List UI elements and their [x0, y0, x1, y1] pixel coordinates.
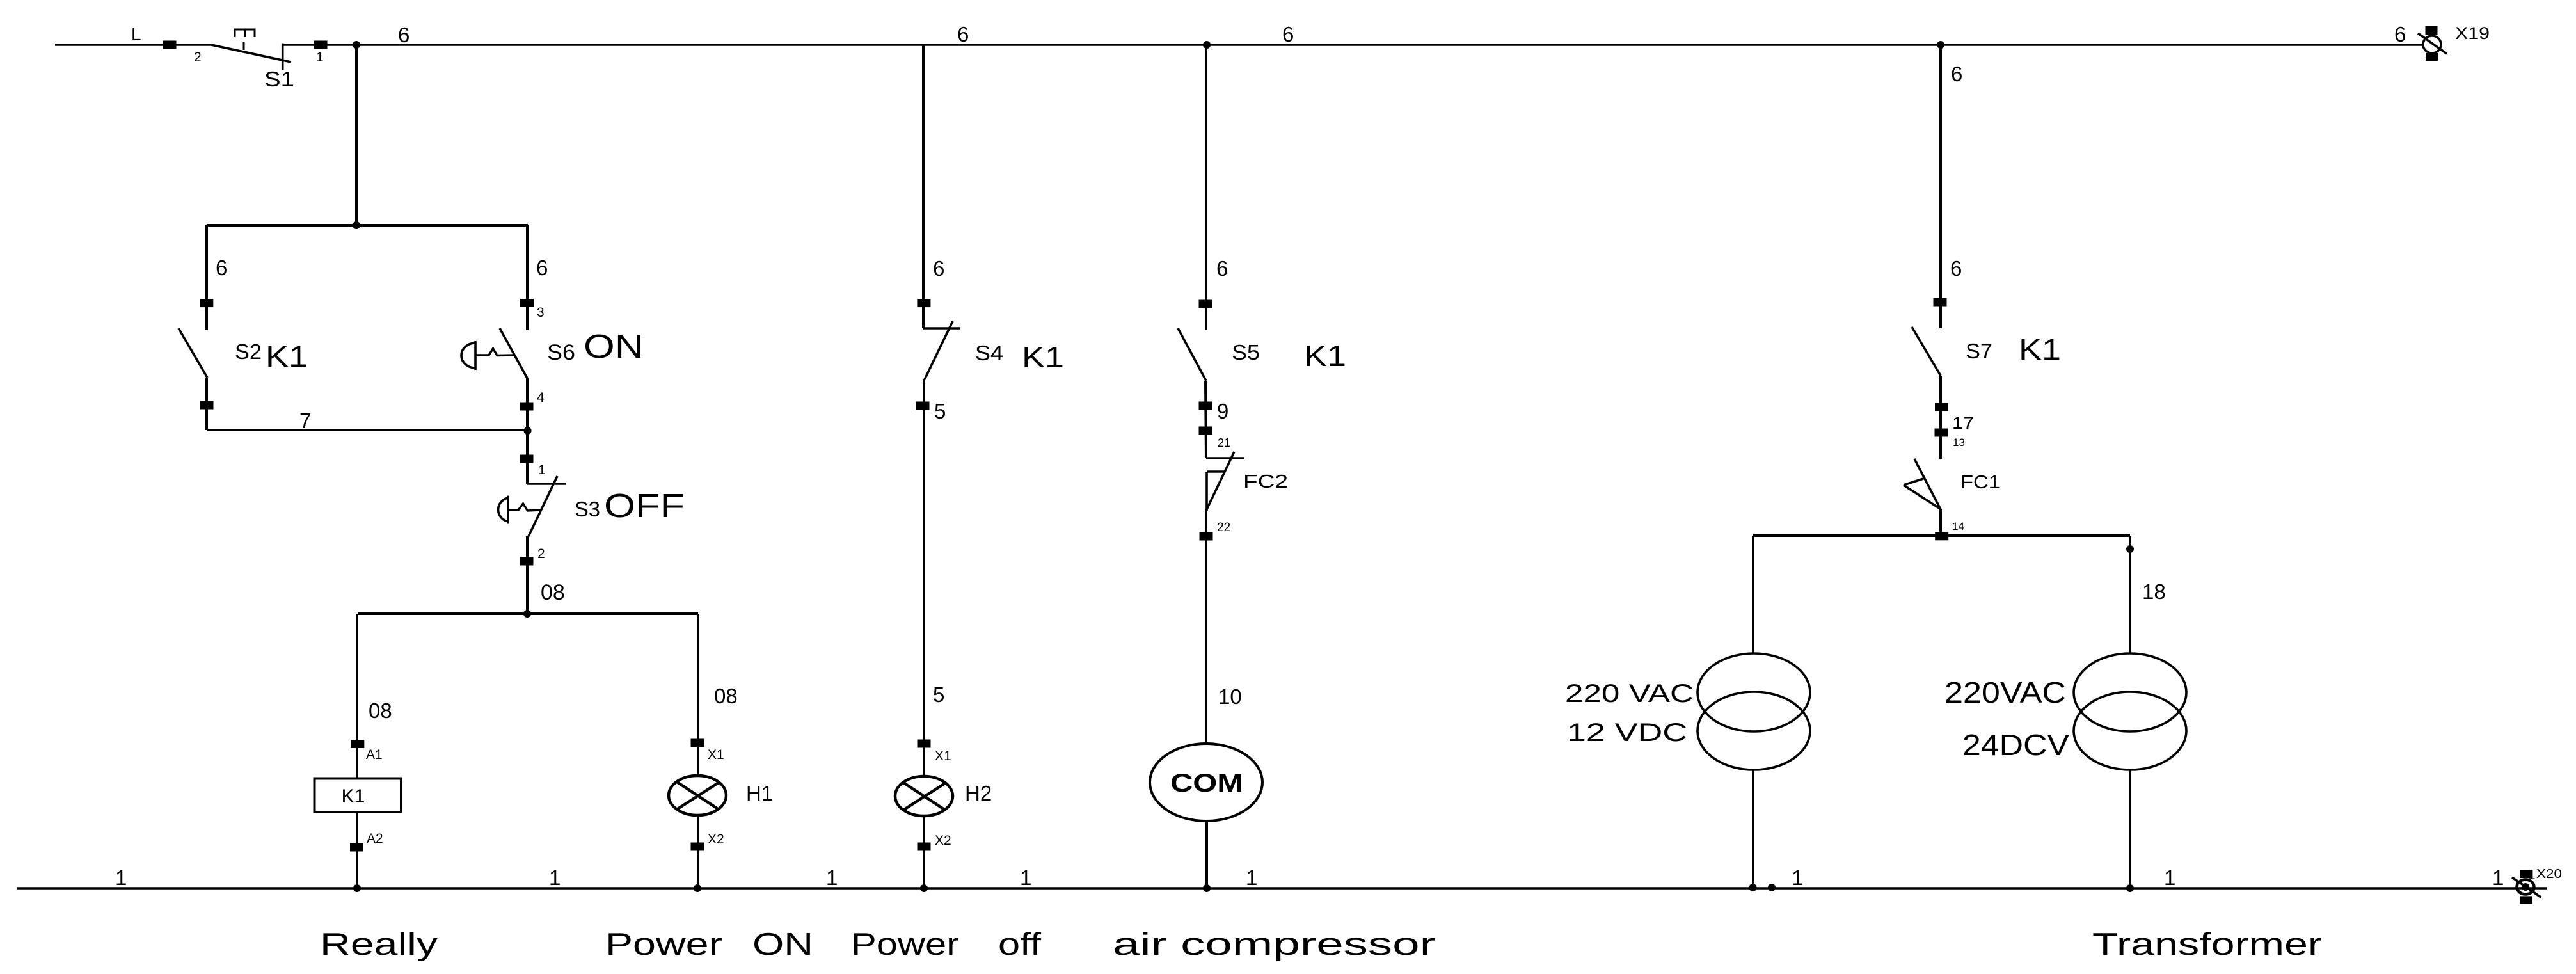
svg-text:S1: S1	[264, 67, 294, 91]
contact S5 blade (NO contact K1)	[1178, 328, 1206, 381]
wire rung node 08	[358, 612, 698, 615]
pin A1 label	[366, 747, 383, 762]
svg-text:K1: K1	[266, 340, 308, 373]
relay coil K1 label	[342, 786, 365, 807]
node 6 label S7 column top	[1951, 62, 1962, 86]
wire T1 secondary	[1752, 770, 1754, 888]
svg-text:22: 22	[1217, 521, 1230, 534]
terminal 14 of FC1	[1935, 532, 1948, 540]
wire S5 column upper	[1205, 45, 1207, 330]
wire COM lower	[1205, 821, 1208, 888]
junction H1 column with bottom rail	[694, 884, 701, 892]
svg-text:S4: S4	[975, 341, 1003, 365]
relay contact K1 label at S5	[1304, 339, 1346, 372]
caption Transformer	[2092, 927, 2322, 962]
connector X19 slash	[2418, 33, 2447, 54]
wire K1 coil upper	[356, 614, 358, 778]
relay contact K1 label at S7	[2019, 333, 2061, 366]
connector X19 label	[2455, 24, 2490, 43]
svg-text:6: 6	[216, 256, 227, 280]
wire S6 upper	[526, 225, 529, 330]
wire T2 secondary	[2129, 770, 2131, 888]
lamp H1 label	[746, 781, 773, 805]
terminal 2 of S1	[163, 41, 177, 49]
transformer T1 secondary winding	[1697, 692, 1810, 770]
svg-text:5: 5	[934, 399, 946, 423]
svg-text:7: 7	[299, 409, 311, 433]
contact S3 blade (NC pushbutton)	[529, 476, 557, 536]
svg-text:18: 18	[2142, 580, 2166, 603]
connector X20 circle	[2517, 880, 2534, 895]
transformer T2 24DCV label	[1962, 728, 2069, 762]
contact S6 blade (NO pushbutton)	[500, 328, 527, 378]
pin X2 label of H1	[708, 832, 724, 847]
pin 2 label of S1	[194, 50, 202, 65]
terminal S7 upper	[1934, 298, 1947, 307]
svg-text:A1: A1	[366, 747, 383, 762]
svg-text:1: 1	[115, 866, 127, 890]
wire rung upper	[207, 224, 528, 227]
transformer T1 12 VDC label	[1567, 719, 1687, 747]
wire top rail L segment	[55, 44, 211, 46]
svg-text:08: 08	[369, 699, 392, 723]
svg-text:off: off	[998, 927, 1041, 962]
lamp H2	[895, 776, 953, 816]
svg-text:6: 6	[933, 257, 944, 280]
connector X20 lower terminal	[2520, 896, 2532, 904]
junction rung 7 with S6 column	[524, 427, 532, 435]
svg-text:X19: X19	[2455, 24, 2490, 43]
connector X20 upper terminal	[2520, 870, 2533, 878]
node 10 label	[1218, 685, 1242, 708]
terminal 9 of S5	[1199, 402, 1212, 410]
transformer T2 220VAC label	[1944, 676, 2066, 709]
junction T1 with bottom rail	[1749, 884, 1757, 891]
junction top rail with S7 column	[1937, 41, 1944, 49]
node L label	[131, 24, 141, 44]
junction feeder with T2 column	[2126, 545, 2134, 553]
svg-text:ON: ON	[752, 927, 813, 962]
node 5 label above X1 of H2	[933, 683, 944, 707]
svg-text:X1: X1	[935, 749, 951, 763]
terminal S5 upper	[1199, 300, 1212, 308]
transformer T2 secondary winding	[2074, 692, 2186, 770]
pin 1 label of S1	[316, 50, 324, 65]
connector X20 pin 1 label	[2528, 868, 2536, 882]
pin X2 label of H2	[935, 833, 951, 848]
svg-text:X2: X2	[708, 832, 724, 847]
lamp H2 label	[965, 781, 992, 805]
connector X20 label	[2536, 867, 2562, 881]
contact S4 seat	[923, 327, 960, 330]
wire T1 primary	[1752, 536, 1754, 654]
node 6 label at X19	[2394, 22, 2406, 46]
wire S4 lower to lamp H2	[923, 379, 925, 777]
switch S6 reference label	[547, 340, 575, 365]
terminal A2 of K1	[350, 843, 363, 852]
relay contact K1 label at S2	[266, 340, 308, 373]
relay contact K1 label at S4	[1022, 340, 1064, 374]
lamp H1	[669, 776, 726, 815]
motor COM (air compressor)	[1150, 744, 1262, 821]
junction rung 08 with S3	[523, 610, 531, 618]
wire S6 lower	[526, 378, 529, 484]
terminal 22 of FC2	[1200, 532, 1213, 541]
svg-text:S5: S5	[1232, 340, 1260, 364]
svg-text:6: 6	[536, 256, 548, 280]
contact FC1 blade (NO limit switch)	[1914, 459, 1941, 509]
motor COM label	[1170, 769, 1243, 797]
svg-text:220 VAC: 220 VAC	[1565, 680, 1694, 708]
svg-text:1: 1	[826, 866, 838, 890]
wire rung node 7	[207, 429, 528, 431]
terminal X1 of H1	[691, 739, 704, 747]
pin 22 label	[1217, 521, 1230, 534]
transformer T2 primary winding	[2074, 653, 2186, 731]
node 08 label above A1	[369, 699, 392, 723]
junction K1 column with bottom rail	[353, 884, 361, 892]
svg-text:6: 6	[957, 22, 969, 46]
limit switch FC2 label	[1243, 472, 1288, 492]
contact S4 blade (NC contact K1)	[925, 321, 953, 379]
switch S1 maintained actuator	[235, 29, 255, 50]
svg-text:A2: A2	[367, 831, 383, 846]
node 6 label S5 column	[1216, 257, 1228, 280]
node 1 label bottom rail e	[1246, 866, 1257, 890]
node 7 label	[299, 409, 311, 433]
junction dot right of T1	[1768, 884, 1776, 891]
svg-text:K1: K1	[2019, 333, 2061, 366]
terminal 4 of S6	[520, 403, 534, 411]
wire S7 lower	[1939, 376, 1942, 459]
svg-text:X1: X1	[708, 747, 724, 762]
limit switch FC1 label	[1960, 472, 2000, 493]
relay coil K1 box	[315, 779, 402, 813]
svg-text:H1: H1	[746, 781, 773, 805]
wire K1 coil lower	[356, 812, 358, 888]
svg-text:21: 21	[1218, 436, 1230, 449]
pin A2 label	[367, 831, 383, 846]
pin 21 label	[1218, 436, 1230, 449]
pin X1 label of H2	[935, 749, 951, 763]
terminal 1 of S3	[520, 455, 534, 463]
svg-text:08: 08	[714, 684, 738, 708]
terminal 21 of FC2	[1199, 427, 1212, 435]
svg-text:S3: S3	[575, 497, 600, 521]
svg-text:6: 6	[398, 23, 409, 47]
terminal A1 of K1	[351, 740, 364, 748]
contact S2 blade (NO contact K1)	[179, 328, 207, 378]
node 6 label S7 column	[1950, 257, 1962, 280]
wire T2 primary node 18	[2129, 536, 2131, 654]
pin 9 label	[1217, 399, 1228, 423]
node 08 label at S3	[541, 580, 565, 605]
junction rung upper	[353, 221, 360, 229]
svg-text:X2: X2	[935, 833, 951, 848]
svg-text:ON: ON	[584, 328, 644, 365]
caption Power (ON)	[605, 927, 722, 962]
pushbutton actuator of S6	[461, 341, 514, 370]
svg-text:S7: S7	[1966, 339, 1992, 363]
junction S1 output	[353, 41, 360, 49]
junction H2 column with bottom rail	[920, 884, 928, 892]
node 18 label	[2142, 580, 2166, 603]
contact FC2 blade (NC limit switch)	[1206, 452, 1234, 511]
pushbutton actuator of S3	[498, 496, 541, 524]
svg-text:K1: K1	[342, 786, 365, 807]
pin X1 label of H1	[708, 747, 724, 762]
switch S3 OFF label	[604, 488, 685, 525]
node 1 label bottom rail a	[115, 866, 127, 890]
node 1 label bottom rail c	[826, 866, 838, 890]
svg-text:Transformer: Transformer	[2092, 927, 2322, 962]
switch S2 reference label	[235, 340, 262, 363]
node 6 label right of S5 junction	[1282, 22, 1294, 46]
svg-text:220VAC: 220VAC	[1944, 676, 2066, 709]
connector X19 upper terminal	[2426, 26, 2438, 35]
svg-text:OFF: OFF	[604, 488, 685, 525]
wire FC2 lower to motor	[1205, 511, 1207, 744]
svg-text:2: 2	[194, 50, 202, 65]
node 6 label top rail	[398, 23, 409, 47]
contact S3 seat	[527, 483, 566, 485]
svg-text:4: 4	[537, 390, 545, 405]
wire from node 6 down	[355, 45, 358, 225]
contact FC2 seat	[1206, 457, 1244, 459]
terminal X2 of H1	[691, 843, 704, 851]
terminal 13 of FC1	[1935, 429, 1948, 437]
node 6 label S4 column top	[957, 22, 969, 46]
wire S2 upper	[205, 225, 208, 330]
wire S5 lower	[1205, 381, 1206, 458]
svg-text:Power: Power	[851, 927, 959, 962]
node 6 label S4 column	[933, 257, 944, 280]
wire H1 upper	[697, 614, 699, 776]
switch S1 reference label	[264, 67, 294, 91]
svg-text:Power: Power	[605, 927, 722, 962]
wire H1 lower	[697, 815, 699, 888]
svg-text:1: 1	[1792, 866, 1803, 890]
pin 3 label of S6	[537, 305, 545, 320]
connector X20 slash	[2512, 877, 2541, 897]
caption Really	[320, 927, 438, 962]
svg-text:17: 17	[1952, 413, 1974, 433]
node 6 label S6 column	[536, 256, 548, 280]
junction T2 with bottom rail	[2126, 884, 2134, 892]
connector X19 link upper	[2431, 35, 2433, 36]
svg-text:3: 3	[537, 305, 545, 320]
terminal X1 of H2	[918, 740, 931, 748]
wire S7 column upper	[1939, 45, 1942, 328]
node 1 label bottom rail f	[1792, 866, 1803, 890]
switch S7 reference label	[1966, 339, 1992, 363]
svg-text:K1: K1	[1304, 339, 1346, 372]
terminal 17 of S7	[1935, 403, 1948, 411]
pin 14 label	[1952, 520, 1964, 532]
terminal 5 of S4	[916, 402, 930, 410]
node 1 label bottom rail b	[549, 866, 561, 890]
terminal S2 lower	[200, 401, 214, 410]
wire H2 lower	[923, 816, 925, 888]
connector X19 lower terminal	[2426, 53, 2438, 61]
switch S1 fixed contact	[282, 44, 284, 70]
node 1 label bottom rail g	[2164, 866, 2175, 890]
terminal 2 of S3	[520, 557, 534, 566]
node 1 label bottom rail d	[1020, 866, 1031, 890]
svg-text:6: 6	[1282, 22, 1294, 46]
pin 4 label of S6	[537, 390, 545, 405]
pin 17 label	[1952, 413, 1974, 433]
node 1 label bottom rail h	[2492, 866, 2504, 890]
caption off	[998, 927, 1041, 962]
svg-text:COM: COM	[1170, 769, 1243, 797]
svg-text:08: 08	[541, 580, 565, 605]
svg-text:1: 1	[549, 866, 561, 890]
svg-text:K1: K1	[1022, 340, 1064, 374]
switch S4 reference label	[975, 341, 1003, 365]
transformer T1 220 VAC label	[1565, 680, 1694, 708]
svg-text:6: 6	[1950, 257, 1962, 280]
svg-text:13: 13	[1953, 436, 1965, 449]
svg-text:9: 9	[1217, 399, 1228, 423]
switch S5 reference label	[1232, 340, 1260, 364]
svg-text:H2: H2	[965, 781, 992, 805]
svg-text:10: 10	[1218, 685, 1242, 708]
pin 1 label of S3	[538, 463, 546, 477]
svg-text:S2: S2	[235, 340, 262, 363]
connector X19 circle	[2423, 36, 2441, 53]
switch S1 blade	[211, 45, 291, 62]
svg-text:L: L	[131, 24, 141, 44]
svg-text:S6: S6	[547, 340, 575, 365]
transformer T1 primary winding	[1697, 653, 1810, 731]
svg-text:1: 1	[1246, 866, 1257, 890]
junction top rail with S5 column	[1203, 41, 1211, 49]
connector X20 junction dot	[2522, 883, 2529, 891]
switch S6 ON label	[584, 328, 644, 365]
svg-text:1: 1	[2492, 866, 2504, 890]
wire top rail node 6	[283, 44, 2423, 46]
node 6 label S2 column	[216, 256, 227, 280]
svg-text:6: 6	[2394, 22, 2406, 46]
wire bottom rail node 1	[17, 887, 2547, 890]
terminal 1 of S1	[314, 41, 328, 49]
node 08 label above X1	[714, 684, 738, 708]
svg-text:air compressor: air compressor	[1113, 927, 1436, 962]
svg-text:Really: Really	[320, 927, 438, 962]
svg-text:1: 1	[2164, 866, 2175, 890]
contact FC2 wedge	[1207, 472, 1225, 511]
svg-text:6: 6	[1951, 62, 1962, 86]
pin 2 label of S3	[537, 547, 545, 561]
caption Power (off)	[851, 927, 959, 962]
svg-text:1: 1	[1020, 866, 1031, 890]
terminal X2 of H2	[918, 843, 931, 851]
wire S2 lower	[205, 378, 208, 430]
terminal 3 of S6	[520, 299, 534, 307]
caption air compressor	[1113, 927, 1436, 962]
switch S3 reference label	[575, 497, 600, 521]
terminal S4 upper	[917, 299, 930, 307]
pin 13 label	[1953, 436, 1965, 449]
wire FC1 lower	[1939, 509, 1942, 536]
svg-text:X20: X20	[2536, 867, 2562, 881]
svg-text:2: 2	[537, 547, 545, 561]
svg-text:24DCV: 24DCV	[1962, 728, 2069, 762]
pin 5 label of S4	[934, 399, 946, 423]
caption ON	[752, 927, 813, 962]
contact FC1 wedge	[1904, 479, 1940, 509]
svg-text:14: 14	[1952, 520, 1964, 532]
junction COM column with bottom rail	[1203, 884, 1211, 892]
svg-text:12 VDC: 12 VDC	[1567, 719, 1687, 747]
svg-text:1: 1	[316, 50, 324, 65]
svg-text:1: 1	[538, 463, 546, 477]
wire S4 column from top rail	[922, 45, 925, 328]
contact S7 blade (NO contact K1)	[1912, 327, 1941, 376]
svg-text:5: 5	[933, 683, 944, 707]
terminal S2 upper	[200, 299, 213, 307]
svg-text:6: 6	[1216, 257, 1228, 280]
svg-text:FC2: FC2	[1243, 472, 1288, 492]
svg-text:FC1: FC1	[1960, 472, 2000, 493]
wire transformer feeder rung	[1753, 534, 2130, 537]
wire S3 lower	[526, 536, 529, 614]
